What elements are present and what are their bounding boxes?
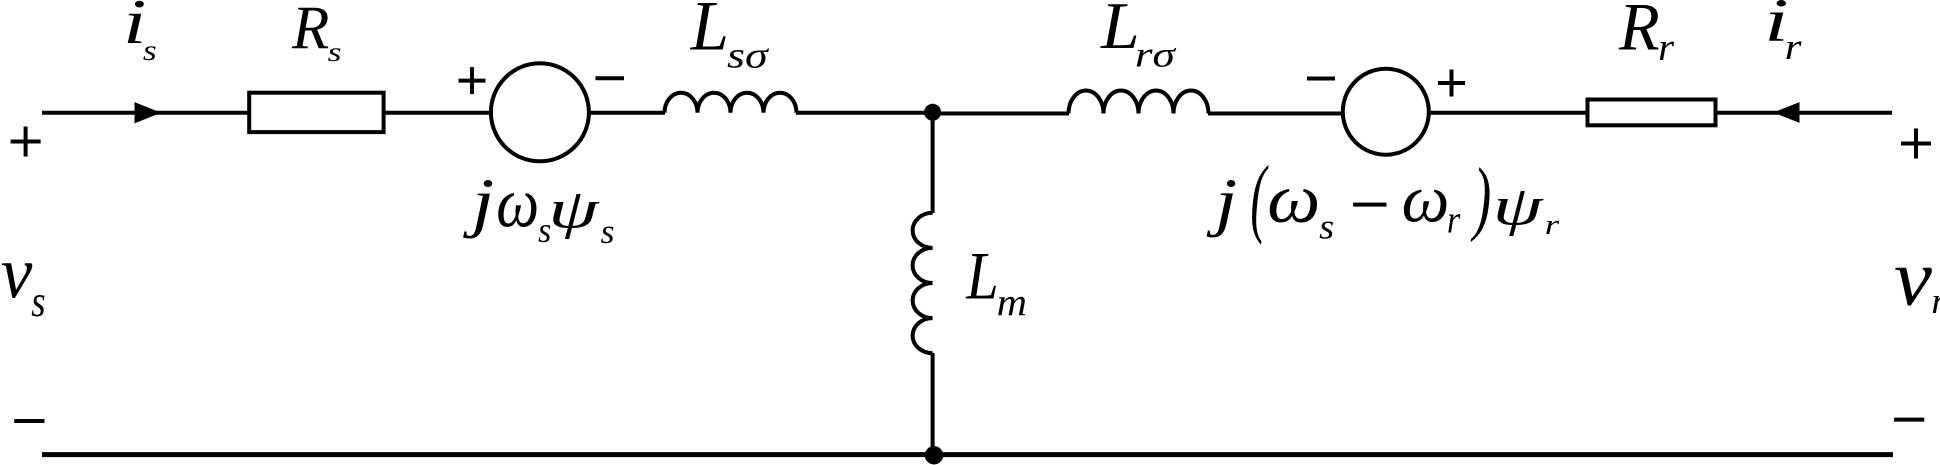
wire: inductor Lrs to source V2 bbox=[1208, 112, 1342, 116]
svg-text:s: s bbox=[328, 37, 342, 67]
plus sign: right of source U2 bbox=[1438, 70, 1465, 97]
source U1: circle of EMF jws*psis bbox=[491, 63, 589, 161]
minus sign: left of source U2 bbox=[1307, 77, 1335, 81]
svg-text:rσ: rσ bbox=[1135, 35, 1177, 75]
svg-text:ω: ω bbox=[496, 164, 539, 242]
plus sign: left of source U1 bbox=[459, 67, 486, 94]
wire: resistor Rr to right terminal bbox=[1716, 111, 1892, 115]
arrow of rotor current ir bbox=[1773, 102, 1799, 123]
wire: source V1 to inductor Lss bbox=[589, 111, 665, 115]
svg-text:j: j bbox=[1207, 167, 1238, 239]
svg-text:L: L bbox=[690, 0, 729, 66]
wire: inductor Lm to bottom rail junction bbox=[931, 353, 935, 455]
plus sign: stator terminal polarity bbox=[11, 127, 41, 157]
svg-text:ψ: ψ bbox=[1493, 176, 1545, 237]
wire: source V2 to resistor Rr bbox=[1430, 111, 1587, 115]
minus sign: right of source U1 bbox=[596, 76, 625, 80]
wire: inductor Lss to center node bbox=[796, 111, 933, 115]
wire: resistor Rs to source V1 bbox=[385, 111, 491, 115]
minus sign: stator bottom polarity bbox=[14, 419, 44, 423]
inductor Lrs bbox=[1069, 91, 1209, 114]
svg-text:v: v bbox=[1, 233, 32, 315]
arrow of stator current is bbox=[135, 102, 162, 123]
svg-text:R: R bbox=[1618, 0, 1660, 65]
svg-text:sσ: sσ bbox=[727, 35, 770, 76]
svg-text:r: r bbox=[1447, 198, 1461, 241]
minus sign: inside label j(ws-wr)psir bbox=[1353, 203, 1386, 207]
node: junction of Lss, Lrs and Lm bbox=[924, 104, 941, 121]
svg-text:r: r bbox=[1545, 210, 1561, 241]
node: junction of Lm and bottom rail bbox=[925, 446, 943, 464]
source U2: circle of EMF j(ws-wr)*psir bbox=[1343, 69, 1429, 155]
svg-text:s: s bbox=[143, 34, 157, 67]
plus sign: rotor terminal polarity bbox=[1901, 129, 1931, 159]
svg-text:s: s bbox=[31, 278, 45, 326]
svg-text:ψ: ψ bbox=[548, 179, 600, 240]
inductor Lm bbox=[913, 213, 933, 353]
svg-text:ω: ω bbox=[1402, 162, 1450, 237]
wire: center node to inductor Lrs bbox=[933, 112, 1069, 116]
resistor Rr bbox=[1588, 100, 1716, 126]
svg-text:): ) bbox=[1471, 152, 1492, 243]
inductor Lss bbox=[665, 93, 797, 113]
svg-text:s: s bbox=[601, 212, 615, 251]
svg-text:(: ( bbox=[1250, 148, 1268, 246]
resistor Rs bbox=[249, 93, 383, 132]
svg-text:r: r bbox=[1931, 280, 1940, 321]
svg-text:R: R bbox=[291, 0, 329, 62]
wire: left terminal to resistor Rs bbox=[42, 111, 248, 115]
svg-text:L: L bbox=[1100, 0, 1140, 63]
svg-text:ω: ω bbox=[1267, 160, 1320, 238]
wire: center node down to inductor Lm bbox=[931, 113, 935, 213]
svg-text:s: s bbox=[1319, 207, 1334, 247]
minus sign: rotor bottom polarity bbox=[1894, 418, 1924, 422]
svg-text:m: m bbox=[997, 283, 1027, 325]
svg-text:r: r bbox=[1785, 26, 1802, 67]
wire: bottom return rail bbox=[42, 452, 1893, 457]
svg-text:j: j bbox=[462, 166, 494, 239]
svg-text:L: L bbox=[965, 239, 998, 314]
svg-text:v: v bbox=[1894, 235, 1932, 323]
svg-text:r: r bbox=[1658, 26, 1675, 69]
